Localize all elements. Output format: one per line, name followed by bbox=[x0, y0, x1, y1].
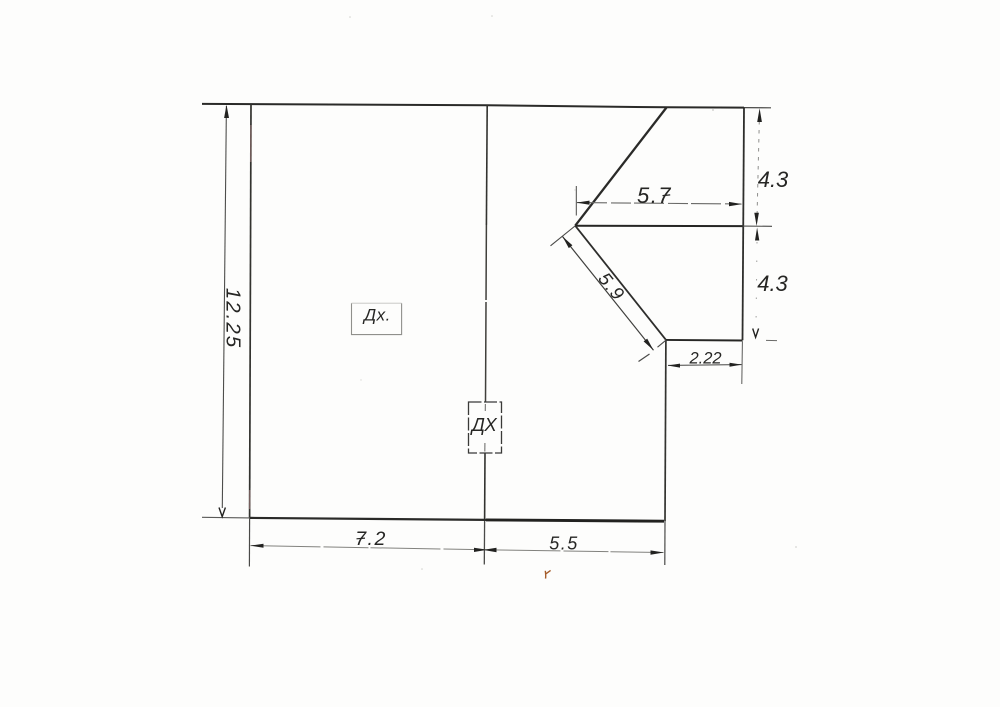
arrow: 5.7 left bbox=[576, 201, 589, 205]
wire: faint red trace on left wall bbox=[250, 125, 252, 162]
extension line: 5.9 top bbox=[551, 226, 576, 246]
wall: bottom horizontal bbox=[250, 518, 486, 520]
wall: notch bottom horizontal bbox=[666, 339, 743, 342]
dimension line: 2.22 horizontal bbox=[668, 364, 742, 367]
svg-text:5.5: 5.5 bbox=[549, 534, 579, 554]
extension line: 5.7 left (above notch corner) bbox=[575, 186, 577, 216]
dimension line: 12.25 vertical bbox=[222, 106, 226, 508]
dimension line: 5.9 diagonal bbox=[563, 237, 654, 351]
extension line: lower right vertical below bottom bbox=[664, 521, 666, 565]
arrow: 4.3 lower top (up, below notch line) bbox=[755, 228, 759, 241]
arrow: 12.25 top (up) bbox=[224, 105, 229, 118]
dimension line: 4.3 upper vertical bbox=[757, 121, 759, 214]
extension line: small dash right of notch bottom bbox=[766, 339, 777, 341]
arrow: 4.3 upper bottom (down) bbox=[754, 213, 759, 226]
svg-text:Дх.: Дх. bbox=[362, 306, 391, 325]
arrow: bottom left (left) bbox=[250, 544, 263, 548]
wire: middle wall dashes inside box 2 bbox=[484, 404, 486, 411]
svg-text:12.25: 12.25 bbox=[222, 288, 245, 349]
arrow: 5.7 right bbox=[729, 202, 742, 206]
dimension line: bottom 7.2 / 5.5 bbox=[251, 546, 664, 553]
dimension line: 5.7 horizontal bbox=[577, 203, 742, 204]
wall: notch horizontal at mid height bbox=[575, 225, 742, 227]
specks on paper bbox=[349, 16, 351, 18]
box: ДХ label box 1 (left room) bbox=[352, 303, 402, 334]
label: crossbar of 7 in 5.7 bbox=[663, 194, 671, 197]
dimension line: 4.3 lower vertical (dotted) bbox=[756, 242, 757, 326]
svg-text:4.3: 4.3 bbox=[758, 167, 789, 192]
label: crossbar of 7 in 7.2 bbox=[357, 537, 366, 540]
extension line: 2.22 right vertical bbox=[741, 342, 744, 385]
box: ДХ label box 2 (on middle wall) bbox=[469, 402, 502, 453]
arrow: 5.9 top (up-left) bbox=[563, 237, 573, 249]
arrow: 4.3 lower bottom (open v, down) bbox=[753, 329, 759, 338]
wall: diagonal upper (from top wall down to notch corner) bbox=[575, 108, 666, 226]
extension line: left wall below bottom bbox=[248, 518, 250, 567]
arrow: bottom middle right-pointing bbox=[474, 548, 488, 552]
wall: lower right vertical bbox=[664, 340, 667, 521]
wall: diagonal lower (notch corner to lower corner) bbox=[575, 226, 666, 340]
arrow: bottom middle left-pointing bbox=[483, 548, 497, 552]
arrow: 4.3 upper top (up) bbox=[757, 108, 762, 122]
wall: middle vertical partition bbox=[485, 105, 488, 225]
svg-text:ДХ: ДХ bbox=[470, 414, 498, 435]
extension line: middle wall below bottom bbox=[483, 521, 485, 565]
arrow: 5.9 bottom (down-right) bbox=[644, 339, 654, 351]
arrow: 12.25 bottom (open v, down) bbox=[219, 508, 225, 517]
svg-text:2.22: 2.22 bbox=[688, 350, 721, 368]
wall: top horizontal bbox=[202, 104, 744, 108]
extension line: 5.9 bottom (broken) bbox=[658, 340, 666, 347]
extension line: bottom wall to the left bbox=[202, 516, 250, 519]
arrow: 2.22 right bbox=[730, 363, 742, 367]
extension line: top right (4.3 dim) bbox=[744, 107, 771, 109]
arrow: 2.22 left bbox=[668, 364, 680, 368]
svg-text:4.3: 4.3 bbox=[757, 271, 788, 296]
arrow: bottom right (right) bbox=[651, 550, 664, 554]
wall: right vertical upper bbox=[743, 108, 745, 341]
wall: left vertical bbox=[250, 104, 251, 518]
extension line: notch horizontal past right wall bbox=[743, 225, 773, 227]
mark: small orange check bottom middle bbox=[545, 570, 550, 578]
